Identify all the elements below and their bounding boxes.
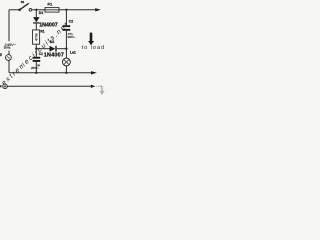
- svg-text:F1: F1: [48, 2, 53, 7]
- svg-text:1N4007: 1N4007: [44, 53, 64, 59]
- svg-text:C1: C1: [39, 52, 43, 56]
- svg-text:250V~: 250V~: [31, 66, 40, 70]
- svg-text:S1: S1: [21, 0, 25, 4]
- svg-text:400V~: 400V~: [67, 35, 76, 39]
- svg-text:1N4007: 1N4007: [39, 23, 58, 29]
- svg-text:to load: to load: [82, 45, 105, 51]
- svg-text:470k: 470k: [34, 33, 38, 41]
- svg-text:R1: R1: [40, 29, 44, 33]
- svg-text:D2: D2: [50, 40, 54, 44]
- svg-text:50Hz: 50Hz: [4, 46, 11, 50]
- svg-text:C2: C2: [69, 19, 73, 23]
- svg-text:D1: D1: [39, 11, 44, 15]
- svg-text:La1: La1: [70, 50, 76, 54]
